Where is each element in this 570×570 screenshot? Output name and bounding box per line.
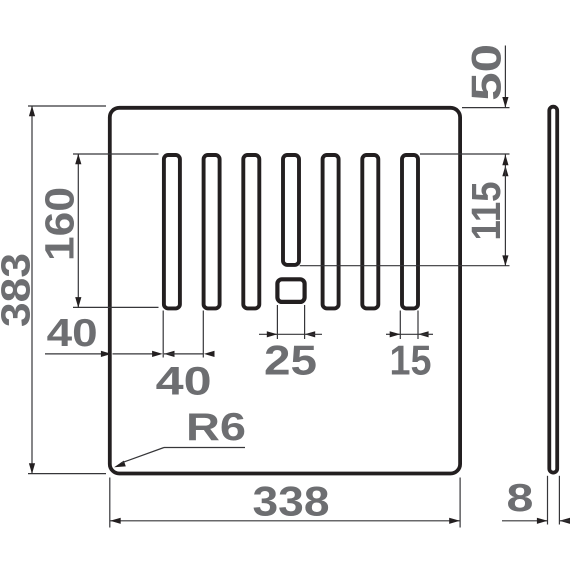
dim 383: top arrow bbox=[29, 106, 35, 117]
slot 6 bbox=[362, 155, 378, 308]
dim 338: left arrow bbox=[110, 518, 121, 524]
side profile view (8 mm thick slab) bbox=[549, 107, 557, 473]
dim 115: dimension line bbox=[504, 154, 506, 266]
svg-text:383: 383 bbox=[0, 253, 39, 327]
dim 40 (slot pitch): dimension line bbox=[164, 353, 203, 355]
svg-text:15: 15 bbox=[390, 337, 432, 384]
dim 338: right arrow bbox=[449, 518, 460, 524]
svg-text:8: 8 bbox=[507, 476, 534, 520]
dim 115: extension line at centre slot bottom bbox=[300, 265, 510, 267]
dim 8: extension line left of profile bbox=[547, 476, 549, 525]
dim 15: left arrow bbox=[390, 331, 401, 337]
dim 25: right tail line bbox=[305, 333, 322, 335]
dim 160: extension line bottom bbox=[73, 306, 159, 308]
leader R6: slanted segment bbox=[121, 448, 164, 464]
slot 4 (short centre slot) bbox=[283, 155, 299, 265]
dim 25: left tail line bbox=[259, 333, 277, 335]
dim 50: dimension line above bbox=[504, 46, 506, 108]
dim 115: extension line at slot tops (right) bbox=[420, 153, 510, 155]
svg-text:40: 40 bbox=[156, 360, 212, 404]
slot 3 bbox=[243, 155, 259, 308]
dim 15: middle line bbox=[400, 333, 418, 335]
dim 8: left arrow bbox=[537, 518, 548, 524]
dim 40 (edge to first slot): line from plate edge to slot1 bbox=[113, 353, 154, 355]
dim 40 (slot pitch): extension line below slot2 bbox=[202, 311, 204, 358]
dim 160: extension line top bbox=[73, 153, 159, 155]
dim 115: top arrow bbox=[502, 155, 508, 166]
dim 50: down arrow at plate edge bbox=[502, 97, 508, 108]
dim 15: extension line left of slot7 bbox=[399, 311, 401, 340]
svg-text:50: 50 bbox=[463, 44, 510, 101]
dim 8: right tail line bbox=[559, 520, 570, 522]
dim 15: right arrow bbox=[418, 331, 429, 337]
slot 1 bbox=[164, 155, 180, 308]
dim 160: top arrow bbox=[75, 154, 81, 165]
svg-text:R6: R6 bbox=[186, 406, 246, 449]
dim 15: right tail line bbox=[418, 333, 433, 335]
slot 2 bbox=[204, 155, 220, 308]
dim 8: right arrow bbox=[559, 518, 570, 524]
dim 40 (slot pitch): left arrow bbox=[164, 351, 175, 357]
dim 15: left tail line bbox=[386, 333, 400, 335]
dim 383: extension line top left bbox=[28, 105, 106, 107]
dim 15: extension line right of slot7 bbox=[417, 311, 419, 340]
dim 40 (slot pitch): right arrow outside bbox=[204, 351, 215, 357]
svg-text:40: 40 bbox=[47, 312, 98, 355]
dim 25: right arrow bbox=[305, 331, 316, 337]
dim 383: extension line bottom left bbox=[28, 473, 106, 475]
dim 25: left arrow bbox=[267, 331, 278, 337]
dim 160: dimension line bbox=[77, 154, 79, 307]
dim 8: left tail line bbox=[502, 520, 548, 522]
leader R6: arrow at bottom-left corner radius bbox=[114, 461, 126, 468]
leader R6: horizontal segment bbox=[164, 447, 245, 449]
plate outline (main front view, rounded square 338x383) bbox=[110, 108, 460, 474]
svg-text:338: 338 bbox=[253, 477, 330, 524]
dim 383: bottom arrow bbox=[29, 463, 35, 474]
dim 338: dimension line bbox=[110, 520, 460, 522]
dim 338: extension line below left plate corner bbox=[109, 478, 111, 528]
slot 5 bbox=[323, 155, 339, 308]
dim 40 (edge to first slot): tail line left of plate edge bbox=[45, 353, 102, 355]
slot 7 bbox=[402, 155, 418, 308]
dim 25: middle line bbox=[277, 333, 304, 335]
svg-text:115: 115 bbox=[463, 182, 509, 241]
svg-text:160: 160 bbox=[37, 187, 83, 261]
dim 338: extension line below right plate corner bbox=[459, 478, 461, 528]
dim 25: extension line right of square bbox=[304, 305, 306, 339]
dim 40 (edge to first slot): right arrow pointing at slot1 line bbox=[152, 351, 163, 357]
dim 50: outside arrow below slot-top line bbox=[502, 166, 508, 177]
dim 8: extension line right of profile bbox=[558, 476, 560, 525]
dim 50: extension line from plate top right corner bbox=[462, 107, 510, 109]
dim 115: bottom arrow bbox=[502, 255, 508, 266]
dim 40 (edge to first slot): arrow at plate edge bbox=[101, 351, 112, 357]
square hole 25x25 below centre slot bbox=[277, 279, 304, 302]
dim 25: extension line left of square bbox=[276, 305, 278, 339]
dim 160: bottom arrow bbox=[75, 297, 81, 308]
dim 40 (slot pitch): extension line below slot1 bbox=[162, 311, 164, 358]
dim 383: dimension line bbox=[31, 106, 33, 474]
svg-text:25: 25 bbox=[264, 337, 317, 384]
